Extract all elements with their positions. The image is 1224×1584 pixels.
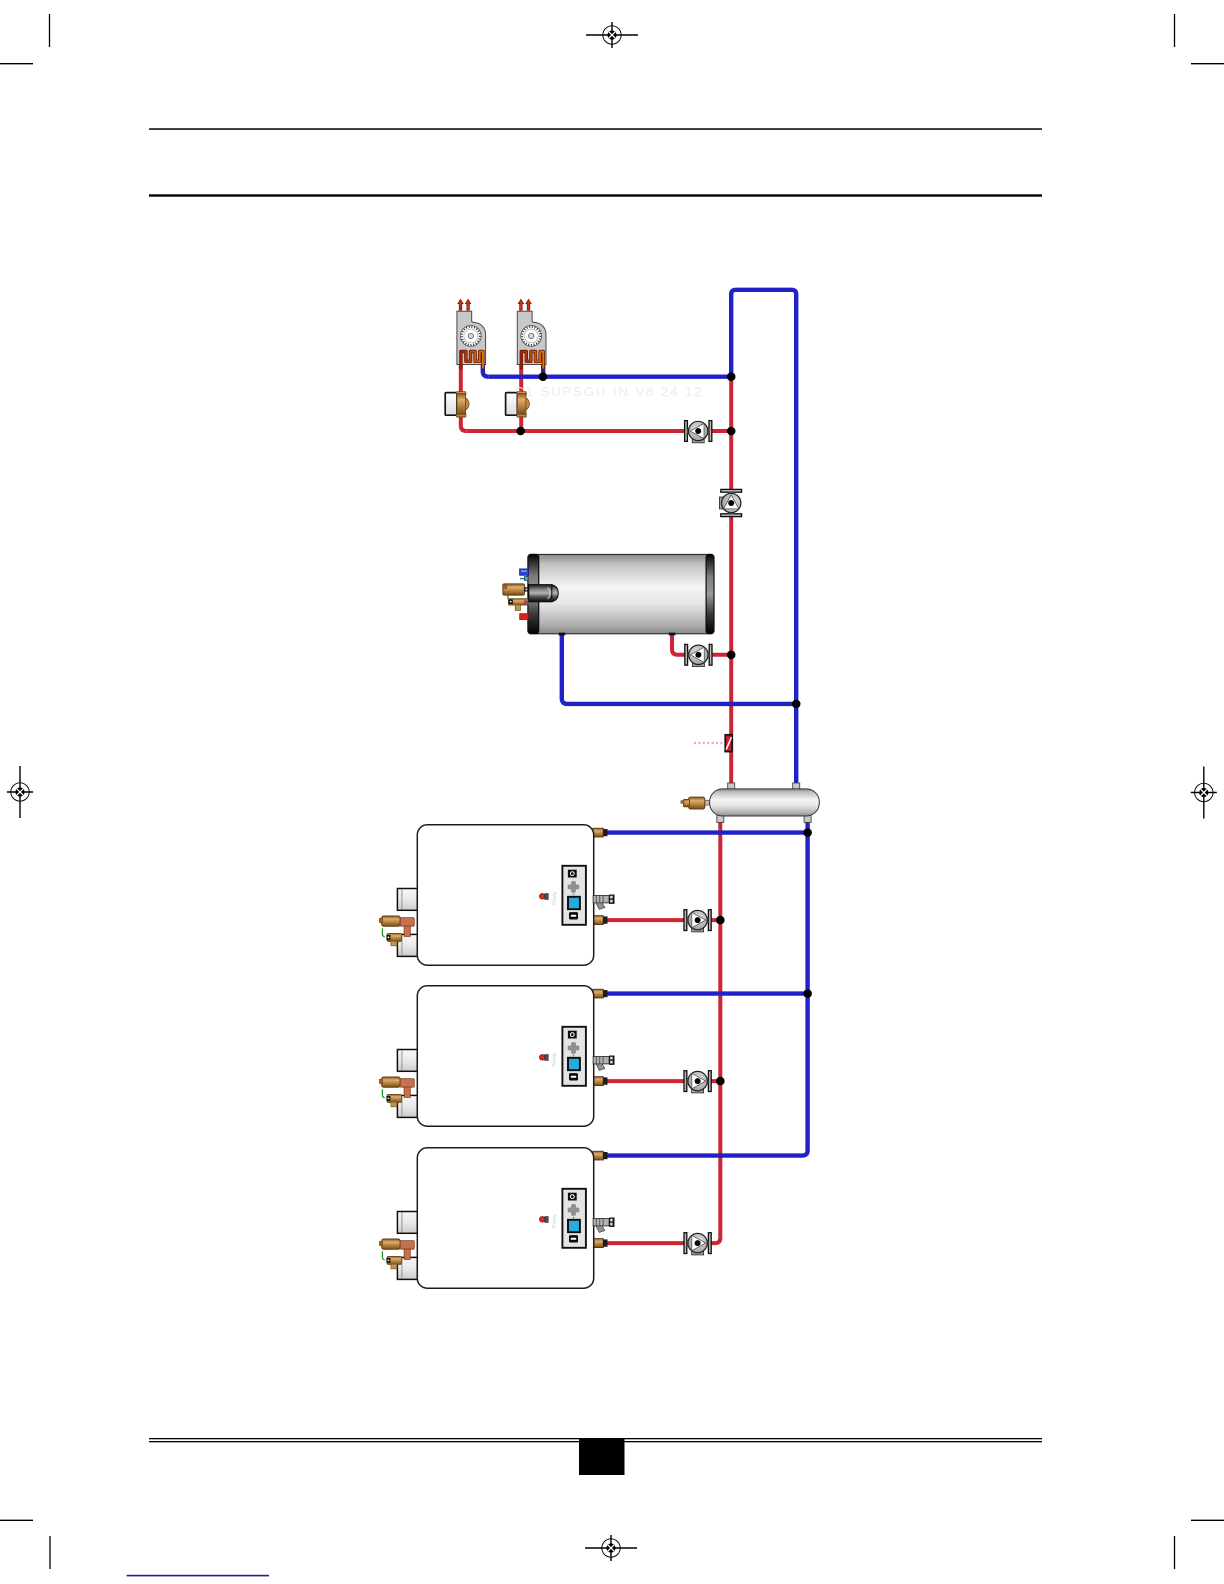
crop mark bottom-left vertical xyxy=(49,1536,51,1569)
pump P4 boiler 1 circulator xyxy=(684,910,711,932)
wire blue return drop fan coil 2 xyxy=(541,357,545,377)
wire red supply drop fan coil 1 xyxy=(461,357,467,431)
registration mark top-center xyxy=(586,22,638,48)
wire red boiler manifold xyxy=(607,820,720,1243)
crop mark bottom-right vertical xyxy=(1174,1536,1176,1569)
registration mark bottom-center xyxy=(585,1535,637,1561)
footer double rule upper xyxy=(149,1438,1042,1439)
wire blue tank return xyxy=(562,630,796,704)
junction tank supply tee xyxy=(727,651,736,660)
check valve with actuator dashes xyxy=(694,735,732,752)
crop mark top-right horizontal xyxy=(1191,63,1224,65)
boiler B3 xyxy=(379,1148,614,1288)
zone valve fan coil 2 xyxy=(506,392,530,418)
crop mark bottom-right horizontal xyxy=(1191,1519,1224,1521)
wire blue bridge loop xyxy=(731,290,796,784)
wire red boiler 2 supply xyxy=(607,1079,720,1083)
crop mark top-left horizontal xyxy=(0,63,33,65)
footer navy underline xyxy=(127,1575,269,1577)
pump P5 boiler 2 circulator xyxy=(684,1071,711,1093)
fan coil unit FC1 xyxy=(457,299,486,368)
header rule thin xyxy=(149,128,1042,130)
pump P2 riser circulator xyxy=(719,489,741,516)
pump P6 boiler 3 circulator xyxy=(684,1233,711,1255)
wire blue fan-coil return header xyxy=(488,375,731,379)
boiler B1 xyxy=(379,825,614,965)
wire red supply drop fan coil 2 xyxy=(519,357,523,431)
wire blue boiler 1 return xyxy=(607,830,808,834)
wire red tank supply xyxy=(672,630,731,655)
svg-text:S1 SUPSGII IN V8 24 12: S1 SUPSGII IN V8 24 12 xyxy=(515,384,704,399)
footer double rule lower xyxy=(149,1441,1042,1442)
junction riser supply tee xyxy=(727,427,736,436)
fan coil unit FC2 xyxy=(517,299,546,368)
junction fan coil 2 supply xyxy=(516,427,525,436)
header rule thick xyxy=(149,194,1042,196)
crop mark bottom-left horizontal xyxy=(0,1519,33,1521)
hydraulic separator xyxy=(681,783,819,822)
crop mark top-right vertical xyxy=(1174,14,1176,47)
wire red riser to separator xyxy=(729,377,733,784)
wire red boiler 1 supply xyxy=(607,918,720,922)
crop mark top-left vertical xyxy=(49,14,51,47)
junction boiler 2 supply tee xyxy=(716,1077,725,1086)
junction boiler 1 return tee xyxy=(803,828,812,837)
pump P1 fan-coil circulator xyxy=(685,421,712,443)
pump P3 tank circulator xyxy=(685,644,712,666)
svg-text:Trinity: Trinity xyxy=(552,891,558,906)
boiler B2 xyxy=(379,986,614,1126)
indirect water heater tank xyxy=(503,554,714,635)
junction tank return tee xyxy=(792,700,801,709)
wire blue boiler 2 return xyxy=(607,991,808,995)
junction fan coil 2 return xyxy=(539,372,548,381)
wire blue return drop fan coil 1 xyxy=(483,357,489,377)
zone valve fan coil 1 xyxy=(445,392,469,418)
footer black box xyxy=(579,1439,625,1475)
wire blue boiler return manifold xyxy=(607,820,808,1156)
registration mark right xyxy=(1191,767,1217,819)
registration mark left xyxy=(7,766,33,818)
junction bridge tee xyxy=(727,372,736,381)
junction boiler 1 supply tee xyxy=(716,916,725,925)
wire red fan-coil supply header xyxy=(466,429,731,433)
junction boiler 2 return tee xyxy=(803,989,812,998)
